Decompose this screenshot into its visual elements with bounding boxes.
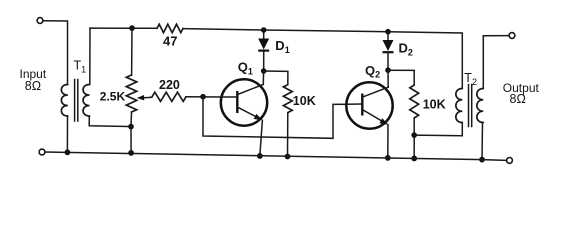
pot lead from top rail bbox=[131, 28, 133, 75]
D2 anode lead from top rail bbox=[387, 32, 389, 40]
output terminal (bottom right) bbox=[507, 158, 513, 164]
D1 cathode bar bbox=[258, 49, 269, 51]
svg-text:8Ω: 8Ω bbox=[510, 92, 526, 106]
svg-text:220: 220 bbox=[159, 78, 180, 92]
wire: Q1 emitter down to bottom rail bbox=[260, 120, 263, 156]
svg-text:2.5K: 2.5K bbox=[100, 90, 126, 104]
resistor 220 bbox=[151, 78, 187, 101]
T1 core bbox=[75, 80, 78, 122]
wire: 10K bottom to T2 primary node and bottom rail bbox=[413, 118, 415, 158]
top rail: 47 to D1 to D2 to T2 primary top bbox=[183, 29, 462, 89]
D2 cathode bar bbox=[383, 51, 394, 53]
transformer T1 bbox=[61, 59, 89, 122]
wire: Q2 collector up to D2 node bbox=[387, 70, 389, 87]
wire: T2 primary bottom to 10K node bbox=[414, 123, 462, 136]
wire: T1 secondary bottom to pot bottom node bbox=[89, 116, 131, 127]
T1 secondary winding bbox=[83, 85, 89, 117]
resistor 47 bbox=[157, 24, 183, 48]
wire: pot bottom node to bottom rail bbox=[130, 127, 132, 153]
junction: T1 primary on bottom rail bbox=[65, 149, 71, 155]
Q1 base bar bbox=[236, 91, 238, 113]
transistor Q1 bbox=[221, 60, 267, 126]
diode D2 bbox=[383, 32, 413, 70]
wire: D2 node to 10K top bbox=[388, 70, 414, 85]
potentiometer 2.5K bbox=[100, 28, 151, 127]
pot resistive element bbox=[126, 75, 136, 112]
junction: 10K (second) on bottom rail bbox=[411, 156, 417, 162]
wire: Q2 emitter down to bottom rail bbox=[387, 125, 389, 158]
Q2 emitter arrow bbox=[379, 118, 388, 125]
T2 core bbox=[469, 85, 472, 127]
wire: T2 secondary bottom to bottom rail bbox=[481, 123, 484, 160]
wire: T1 primary bottom to bottom rail bbox=[66, 116, 68, 152]
resistor 10K (second) bbox=[388, 70, 446, 158]
wire: Q1 collector up to D1 node bbox=[262, 71, 264, 84]
junction: 10K on bottom rail bbox=[285, 154, 291, 160]
junction: Q1 base node bbox=[200, 94, 206, 100]
junction: pot top on top rail bbox=[129, 25, 135, 31]
Q2 base lead bbox=[347, 103, 361, 105]
wire: T2 secondary top to output terminal bbox=[483, 36, 508, 89]
wire: bottom rail to output bottom terminal bbox=[482, 159, 506, 162]
pot lead to bottom node bbox=[130, 112, 133, 127]
svg-text:10K: 10K bbox=[423, 98, 446, 112]
D2 triangle bbox=[383, 40, 394, 51]
input terminal (bottom left) bbox=[39, 149, 45, 155]
svg-text:47: 47 bbox=[163, 34, 177, 49]
junction: T2 primary bottom / 10K node bbox=[411, 132, 417, 138]
Q2 collector lead bbox=[362, 87, 388, 97]
svg-text:8Ω: 8Ω bbox=[25, 79, 41, 93]
svg-text:10K: 10K bbox=[293, 94, 316, 108]
output terminal (top right) bbox=[509, 33, 515, 39]
D2 cathode lead bbox=[387, 52, 389, 70]
junction: D2 on top rail bbox=[385, 29, 391, 35]
bottom rail bbox=[45, 152, 482, 160]
wire: Q1 base node down and across to Q2 base bbox=[203, 97, 347, 139]
junction: Q2 emitter on bottom rail bbox=[385, 155, 391, 161]
label Input 8ohm bbox=[20, 67, 47, 93]
wire: T1 secondary top to top rail bbox=[89, 28, 91, 84]
input terminal (top left) bbox=[37, 18, 43, 24]
T1 primary winding bbox=[61, 85, 67, 117]
junction: Q1 emitter on bottom rail bbox=[257, 153, 263, 159]
transformer T2 bbox=[456, 71, 483, 127]
Q1 emitter lead bbox=[237, 107, 260, 119]
D1 anode lead from top rail bbox=[263, 30, 265, 39]
D1 triangle bbox=[258, 39, 269, 50]
pot wiper arrow bbox=[143, 96, 151, 98]
junction: T2 secondary on bottom rail bbox=[479, 157, 485, 163]
T2 secondary winding bbox=[477, 89, 483, 123]
junction: T1 secondary bottom / pot bottom bbox=[128, 124, 134, 130]
junction: D1 cathode / Q1 collector / 10K bbox=[261, 68, 267, 74]
diode D1 bbox=[258, 30, 290, 71]
Q1 emitter arrow bbox=[254, 114, 263, 120]
Q2 emitter lead bbox=[362, 110, 385, 124]
wire: D1 node to 10K top bbox=[264, 71, 288, 85]
T2 primary winding bbox=[456, 89, 462, 123]
resistor 10K (first) bbox=[264, 71, 316, 157]
D1 cathode lead bbox=[263, 51, 265, 71]
transistor Q2 bbox=[346, 63, 392, 129]
wire: 10K bottom to bottom rail bbox=[287, 113, 289, 158]
label Output 8ohm bbox=[503, 81, 540, 106]
junction: pot node on bottom rail bbox=[128, 150, 134, 156]
Q1 collector lead bbox=[237, 84, 263, 94]
Q1 base lead bbox=[221, 96, 236, 98]
junction: D1 on top rail bbox=[261, 27, 267, 33]
wire: input top terminal to T1 primary top bbox=[43, 21, 67, 85]
top rail: T1 secondary / pot node to 47 bbox=[90, 27, 157, 29]
junction: D2 cathode / Q2 collector / 10K bbox=[385, 67, 391, 73]
wire: wiper to 220 bbox=[151, 96, 153, 98]
wire: 220 to Q1 base bbox=[186, 96, 221, 98]
Q2 base bar bbox=[361, 94, 363, 116]
